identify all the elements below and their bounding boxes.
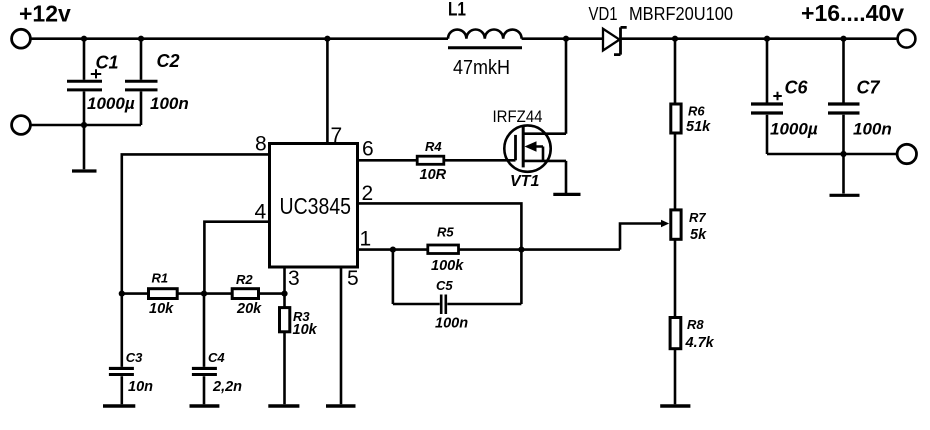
C1 plus sign (91, 69, 101, 78)
svg-text:100n: 100n (150, 94, 189, 113)
wire top rail diode to output terminal (621, 37, 898, 40)
wire input negative rail (32, 124, 142, 127)
capacitor C7 (842, 39, 845, 103)
svg-text:6: 6 (362, 138, 374, 161)
terminal output positive (898, 30, 916, 48)
svg-text:1000µ: 1000µ (87, 94, 135, 113)
ground under C1 (72, 169, 97, 172)
svg-text:R6: R6 (688, 104, 705, 119)
svg-text:5: 5 (347, 267, 359, 290)
C6 plus sign (773, 92, 782, 100)
wire pin 3 down (283, 267, 286, 294)
ground under R8 (660, 404, 690, 407)
svg-text:C5: C5 (436, 278, 453, 293)
node junction C7/negative rail (840, 151, 846, 157)
source tap (523, 161, 566, 193)
svg-text:MBRF20U100: MBRF20U100 (629, 4, 733, 24)
wire top rail L1 to diode (522, 37, 603, 40)
wire R6 to R7 (674, 133, 677, 210)
capacitor C6 (766, 39, 769, 103)
svg-text:2: 2 (362, 182, 374, 205)
node junction C7/top rail (840, 36, 846, 42)
diode VD1 (schottky) (603, 29, 620, 51)
op-amp U1 UC3845 body (270, 144, 358, 268)
wire pin7 to top rail (326, 39, 329, 144)
svg-text:1: 1 (360, 228, 372, 251)
ground under C7 (830, 194, 860, 197)
svg-text:100k: 100k (431, 258, 464, 274)
resistor R5 (428, 245, 459, 254)
potentiometer R7 (671, 210, 681, 239)
terminal output negative (897, 144, 916, 163)
svg-text:10R: 10R (420, 167, 447, 183)
capacitor C1 (83, 39, 86, 80)
channel bar (522, 127, 525, 168)
svg-text:51k: 51k (686, 119, 711, 135)
svg-text:1000µ: 1000µ (770, 120, 818, 139)
resistor R3 (283, 294, 286, 308)
wire pin 2 to C5 node (358, 203, 522, 304)
svg-text:2,2n: 2,2n (212, 379, 242, 395)
svg-text:R1: R1 (152, 271, 169, 286)
node junction drain/top rail (563, 36, 569, 42)
arrow to channel (525, 141, 537, 151)
svg-text:VT1: VT1 (510, 173, 539, 190)
capacitor C3 (121, 294, 124, 367)
svg-text:R8: R8 (687, 317, 704, 332)
svg-text:100n: 100n (853, 120, 892, 139)
wire pin 8 to R1 node (122, 154, 270, 293)
svg-text:+12v: +12v (19, 1, 71, 27)
svg-text:C1: C1 (96, 53, 119, 73)
svg-text:R2: R2 (236, 272, 253, 287)
svg-text:20k: 20k (236, 301, 262, 317)
resistor R4 (417, 156, 444, 164)
svg-text:R5: R5 (437, 225, 454, 240)
svg-text:R4: R4 (425, 139, 442, 154)
wire R7 to R8 (674, 239, 677, 317)
node junction pin8/R1/C3 (119, 291, 125, 297)
node junction C1/negative rail (81, 122, 87, 128)
svg-text:+16....40v: +16....40v (801, 0, 904, 26)
svg-text:VD1: VD1 (589, 4, 618, 24)
arrow into R7 wiper (661, 220, 669, 227)
svg-text:3: 3 (288, 267, 300, 290)
svg-text:IRFZ44: IRFZ44 (493, 107, 543, 126)
svg-text:5k: 5k (690, 227, 707, 243)
node junction R1/R2/C4/pin4 (201, 291, 207, 297)
terminal input positive (12, 29, 31, 48)
node junction R6/top rail (672, 36, 678, 42)
svg-text:R7: R7 (689, 210, 706, 225)
ground under VT1 source (553, 193, 580, 196)
svg-text:47mkH: 47mkH (453, 57, 510, 79)
svg-text:UC3845: UC3845 (280, 193, 352, 219)
wire pin 1 to R5 (358, 248, 428, 251)
svg-text:10k: 10k (293, 322, 318, 338)
wire output negative rail (767, 153, 897, 156)
svg-text:C6: C6 (785, 78, 809, 98)
ground under R3 (268, 404, 299, 407)
inductor L1 (448, 29, 522, 38)
capacitor C4 (203, 294, 206, 367)
svg-text:10n: 10n (128, 379, 153, 395)
svg-text:100n: 100n (435, 316, 468, 332)
svg-text:4: 4 (255, 201, 267, 224)
ground under C4 (190, 404, 220, 407)
svg-text:C4: C4 (208, 350, 225, 365)
svg-text:4.7k: 4.7k (685, 335, 715, 351)
terminal input negative (12, 116, 31, 135)
resistor R2 (232, 289, 258, 299)
node junction C1/top rail (81, 36, 87, 42)
drain tap (523, 39, 566, 134)
node junction R2/R3/pin3 (281, 291, 287, 297)
resistor R1 (122, 292, 149, 295)
wire R5 node to R7 wiper (620, 224, 662, 250)
svg-text:L1: L1 (448, 0, 466, 21)
resistor R8 (670, 318, 681, 349)
gate bar (514, 135, 517, 160)
capacitor C2 (140, 39, 143, 80)
svg-text:7: 7 (331, 124, 343, 147)
node junction pin7/top rail (324, 36, 330, 42)
node junction R5/pin2 vertical (518, 247, 524, 253)
svg-text:C3: C3 (126, 350, 143, 365)
capacitor C5 (393, 250, 440, 304)
wire pin 6 to R4 (358, 159, 418, 162)
ground under C3 (103, 404, 135, 407)
svg-text:C2: C2 (157, 51, 180, 71)
wire pin 5 to ground (340, 267, 343, 404)
svg-text:10k: 10k (149, 301, 174, 317)
node junction pin1/C5 branch (390, 247, 396, 253)
transistor VT1 MOSFET (504, 125, 550, 171)
wire R4 to gate (444, 159, 516, 162)
ground under pin 5 (326, 404, 356, 407)
svg-text:8: 8 (255, 133, 267, 156)
wire R8 to ground (674, 349, 677, 405)
wire top rail left (input to L1) (32, 37, 449, 40)
wire pin 4 to R1/R2 node (204, 222, 269, 294)
svg-text:C7: C7 (857, 78, 881, 98)
node junction C6/top rail (764, 36, 770, 42)
node junction C2/top rail (138, 36, 144, 42)
resistor R6 (674, 39, 677, 104)
